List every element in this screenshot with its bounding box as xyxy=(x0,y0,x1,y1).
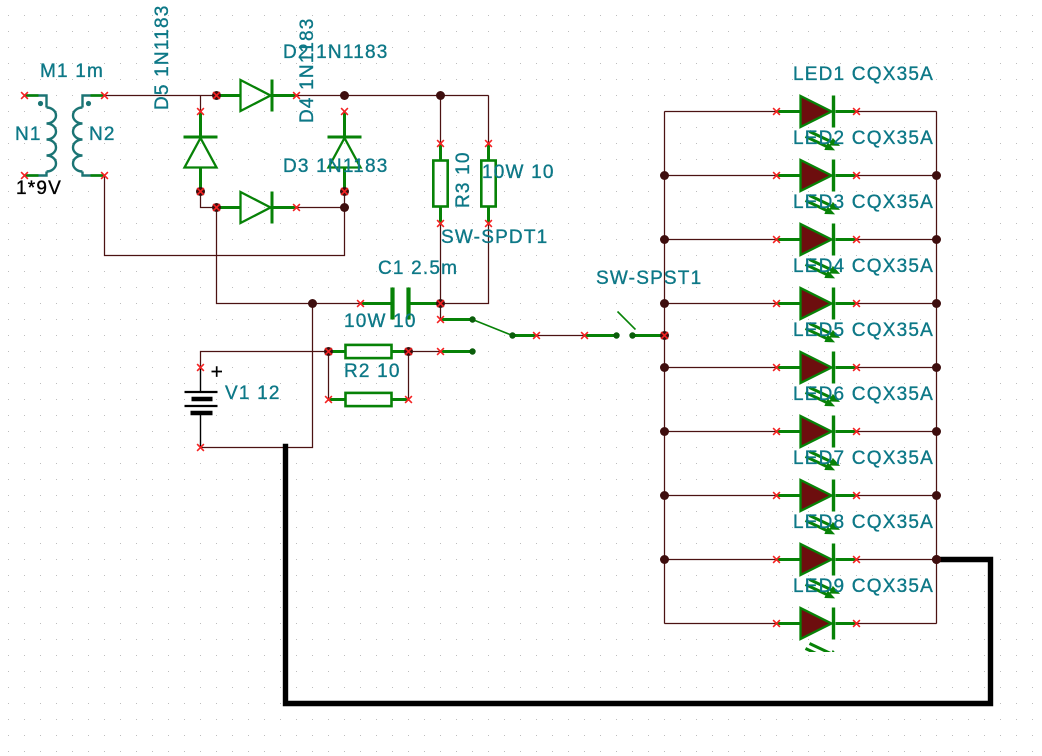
svg-text:N2: N2 xyxy=(89,124,116,145)
svg-text:SW-SPDT1: SW-SPDT1 xyxy=(441,227,548,248)
svg-text:SW-SPST1: SW-SPST1 xyxy=(596,268,702,289)
svg-text:10W 10: 10W 10 xyxy=(344,311,417,332)
svg-text:1*9V: 1*9V xyxy=(16,178,62,199)
svg-text:LED1 CQX35A: LED1 CQX35A xyxy=(793,64,934,85)
svg-text:LED6 CQX35A: LED6 CQX35A xyxy=(793,384,934,405)
svg-text:M1 1m: M1 1m xyxy=(40,61,104,82)
svg-text:10W 10: 10W 10 xyxy=(482,162,555,183)
svg-text:D3 1N1183: D3 1N1183 xyxy=(283,156,389,177)
svg-text:LED4 CQX35A: LED4 CQX35A xyxy=(793,256,934,277)
svg-text:LED9 CQX35A: LED9 CQX35A xyxy=(793,576,934,597)
svg-text:LED2 CQX35A: LED2 CQX35A xyxy=(793,128,934,149)
svg-text:LED3 CQX35A: LED3 CQX35A xyxy=(793,192,934,213)
svg-text:LED8 CQX35A: LED8 CQX35A xyxy=(793,512,934,533)
svg-text:N1: N1 xyxy=(15,124,42,145)
svg-text:D5 1N1183: D5 1N1183 xyxy=(152,4,173,110)
svg-text:LED7 CQX35A: LED7 CQX35A xyxy=(793,448,934,469)
svg-text:D4 1N1183: D4 1N1183 xyxy=(297,17,318,123)
svg-text:R3 10: R3 10 xyxy=(453,151,474,208)
svg-text:LED5 CQX35A: LED5 CQX35A xyxy=(793,320,934,341)
svg-text:R2 10: R2 10 xyxy=(344,361,401,382)
svg-text:V1 12: V1 12 xyxy=(225,383,281,404)
svg-text:C1 2.5m: C1 2.5m xyxy=(378,258,458,279)
